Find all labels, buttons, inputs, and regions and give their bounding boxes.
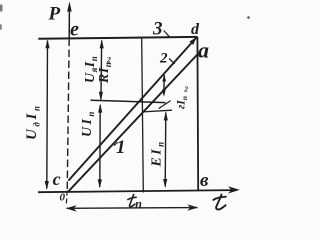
svg-text:2: 2 bbox=[106, 56, 111, 65]
svg-text:a: a bbox=[198, 38, 209, 63]
vertical guide line at switching moment bbox=[142, 39, 144, 193]
svg-text:п: п bbox=[135, 196, 142, 210]
svg-text:c: c bbox=[53, 169, 61, 189]
P axis solid upper segment bbox=[68, 8, 70, 39]
line 1 (0 to a, EIп line) bbox=[69, 54, 198, 191]
svg-text:1: 1 bbox=[116, 137, 126, 158]
top line e-d (UдIп level, line 3) bbox=[38, 37, 197, 39]
svg-text:2: 2 bbox=[159, 51, 168, 67]
background paper bbox=[0, 0, 255, 213]
svg-text:в: в bbox=[200, 170, 209, 191]
axis label t (drawn) bbox=[213, 195, 226, 210]
svg-text:e: e bbox=[70, 19, 79, 41]
dimension line tп bbox=[67, 207, 198, 210]
dimension arrow EIп (line B to t axis) bbox=[164, 113, 167, 187]
svg-text:0: 0 bbox=[60, 192, 66, 204]
svg-text:2: 2 bbox=[183, 85, 188, 94]
leader tick for rIп² bbox=[159, 101, 171, 109]
P axis arrowhead bbox=[67, 2, 72, 12]
t axis bbox=[38, 190, 233, 192]
svg-text:3: 3 bbox=[152, 19, 163, 40]
dimension arrow URIп=RIп² (top to line A) bbox=[100, 41, 103, 100]
speckle top-right bbox=[247, 16, 250, 19]
label tп (drawn t + п) bbox=[128, 194, 136, 206]
t axis arrowhead bbox=[228, 186, 240, 193]
dimension arrow UдIп (full height, left) bbox=[46, 41, 49, 189]
middle horizontal line B bbox=[143, 110, 172, 112]
dimension arrow UIп (line A to t axis) bbox=[99, 105, 101, 187]
P axis dashed segment bbox=[67, 39, 69, 191]
tick for label 1 bbox=[114, 142, 118, 146]
P axis dashed extension below t axis bbox=[66, 191, 67, 207]
mini dimension arrow rIп² (between line 2 and line 1) bbox=[163, 75, 165, 95]
speckle top-left bbox=[0, 4, 3, 12]
svg-text:d: d bbox=[191, 21, 200, 38]
speckle left bbox=[0, 24, 2, 30]
right border d-в bbox=[196, 37, 199, 190]
tick for label 2 bbox=[169, 59, 175, 64]
tick for label 3 bbox=[164, 31, 170, 38]
middle horizontal line A bbox=[91, 100, 166, 102]
svg-text:P: P bbox=[48, 4, 61, 25]
arrowhead of line 2 at d bbox=[189, 37, 196, 45]
line 2 (c to d, UIп line) bbox=[68, 37, 196, 180]
